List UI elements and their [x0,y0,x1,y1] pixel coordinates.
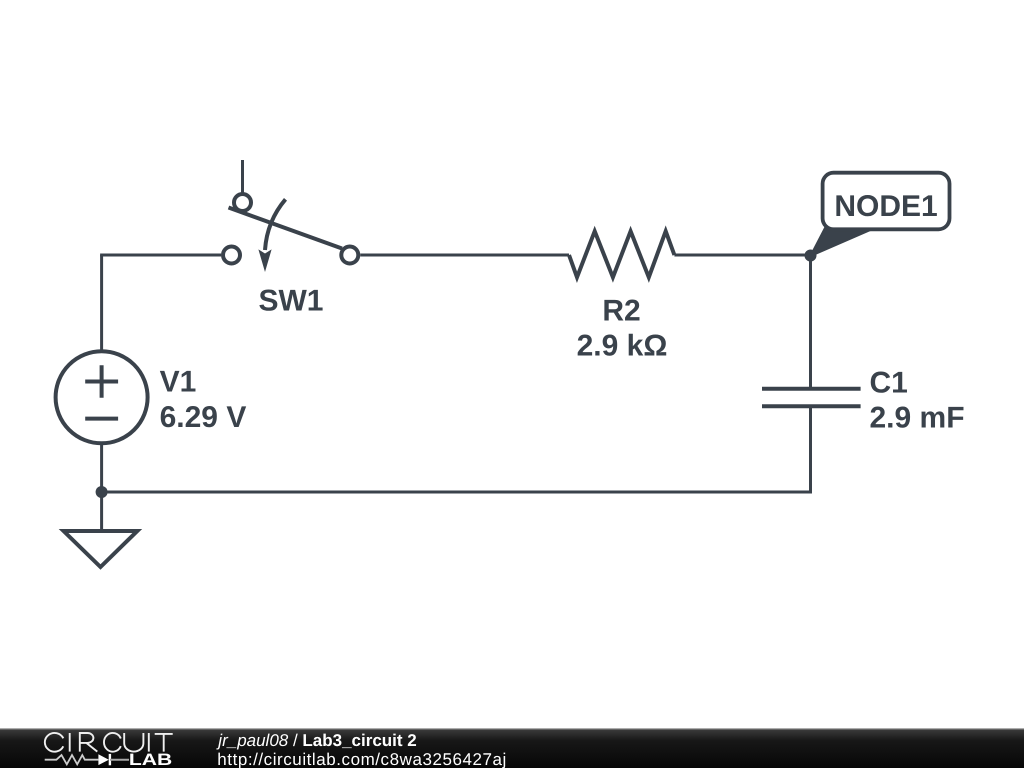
wire top rail to switch left terminal [100,254,221,257]
svg-text:2.9 kΩ: 2.9 kΩ [577,330,668,363]
svg-text:R2: R2 [602,295,640,328]
svg-text:6.29 V: 6.29 V [160,401,247,434]
wire switch top stub [241,160,244,194]
junction dot at NODE1 [805,250,817,262]
switch SW1 [223,194,358,264]
svg-text:LAB: LAB [129,751,172,768]
capacitor C1 [762,389,861,407]
footer bar top edge [0,728,1024,729]
footer bar [0,729,1024,768]
wire V1 top to top rail corner [100,255,103,352]
svg-text:jr_paul08 / Lab3_circuit 2: jr_paul08 / Lab3_circuit 2 [216,731,416,750]
CircuitLab logo resistor squiggle [45,755,99,764]
ground [64,531,138,567]
svg-text:V1: V1 [160,366,197,399]
CircuitLab logo diode cathode bar [109,754,111,765]
svg-text:C1: C1 [870,367,908,400]
CircuitLab logo CIRCUIT wordmark [45,733,173,752]
wire switch right terminal to resistor [360,254,569,257]
svg-text:http://circuitlab.com/c8wa3256: http://circuitlab.com/c8wa3256427aj [217,750,507,768]
resistor R2 [569,231,674,277]
CircuitLab logo wire to LAB [110,759,129,761]
wire node down to capacitor [809,255,812,388]
svg-text:2.9 mF: 2.9 mF [870,402,965,435]
wire V1 bottom to ground [100,443,103,530]
wire capacitor bottom to bottom rail [102,406,811,492]
svg-text:SW1: SW1 [258,285,323,318]
voltage source V1 [56,351,148,443]
switch SW1 arrowhead [258,249,271,272]
CircuitLab logo diode triangle [98,754,108,765]
node NODE1 flag tail [811,228,876,256]
wire resistor to node [674,254,812,257]
svg-text:NODE1: NODE1 [834,190,937,223]
node NODE1 flag box [823,173,950,230]
junction dot at bottom rail [96,486,108,498]
